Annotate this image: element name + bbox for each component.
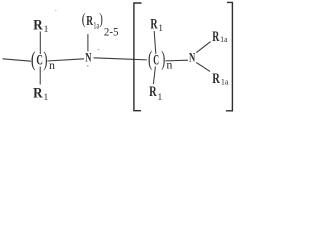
svg-text:1a: 1a — [221, 76, 229, 86]
svg-text:1a: 1a — [220, 34, 227, 44]
svg-text:1: 1 — [158, 24, 163, 34]
svg-text:N: N — [189, 50, 196, 65]
svg-text:R: R — [149, 84, 157, 100]
svg-text:R: R — [33, 85, 43, 101]
bracket right — [226, 2, 233, 110]
wire bond C1 up to R1 top-left — [39, 32, 41, 55]
bracket left — [134, 3, 142, 111]
svg-text:1a: 1a — [93, 20, 99, 30]
node R1 bottom-left label — [33, 85, 48, 103]
svg-text:(: ( — [31, 47, 36, 71]
node R1 bottom-right label — [149, 84, 162, 103]
svg-text:R: R — [212, 71, 220, 87]
wire main chain segment far left — [3, 59, 32, 61]
svg-text:): ) — [161, 46, 165, 70]
svg-text:N: N — [85, 50, 92, 65]
svg-text:R: R — [150, 16, 157, 32]
node R1 top-right label — [150, 16, 163, 34]
node (R1a)2-5 label — [82, 11, 119, 38]
svg-text:1: 1 — [44, 25, 49, 35]
atom N2 right — [189, 50, 196, 65]
node C2 group (C)n right — [148, 46, 172, 71]
svg-text:(: ( — [82, 11, 86, 28]
speck noise dots — [47, 10, 100, 67]
svg-text:): ) — [99, 11, 103, 28]
node C1 group (C)n left — [31, 47, 55, 72]
wire main chain segment C1 to N1 — [47, 59, 84, 61]
wire diagonal bond N2 to R1a upper — [196, 42, 210, 53]
wire bond C1 down to R1 bottom-left — [39, 67, 41, 85]
node R1a lower-right label — [212, 71, 228, 87]
svg-text:n: n — [166, 58, 172, 72]
wire diagonal bond N2 to R1a lower — [196, 62, 210, 71]
svg-text:1: 1 — [158, 93, 163, 103]
wire main chain segment C2 to N2 — [165, 59, 188, 62]
wire bond N1 up to (R1a) group — [87, 34, 89, 51]
atom N1 middle — [85, 50, 92, 65]
node R1a upper-right label — [212, 29, 227, 45]
svg-text:2-5: 2-5 — [104, 25, 119, 39]
svg-text:(: ( — [148, 46, 152, 70]
svg-text:1: 1 — [44, 93, 49, 103]
svg-text:C: C — [36, 53, 43, 69]
svg-text:C: C — [153, 52, 159, 68]
wire main chain segment N1 to bracket — [94, 58, 147, 60]
node R1 top-left label — [33, 17, 48, 35]
wire bond C2 down to R1 bottom-right — [153, 67, 155, 85]
svg-text:R: R — [33, 17, 43, 33]
wire bond C2 up to R1 top-right — [154, 31, 156, 54]
svg-text:R: R — [212, 29, 219, 45]
svg-text:): ) — [43, 47, 47, 71]
